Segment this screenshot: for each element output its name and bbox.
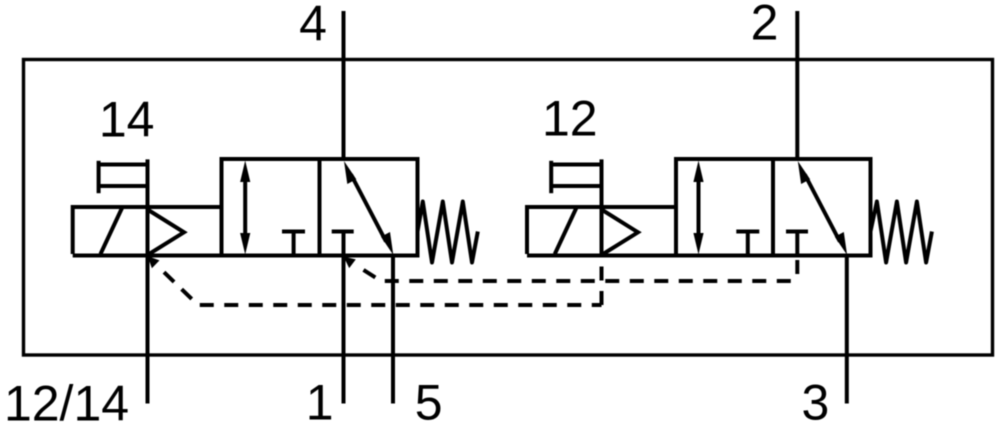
pilot line B arrowhead [344, 257, 356, 269]
valve V1 diagonal flow arrow (right square) [344, 161, 393, 255]
valve V1 body [222, 159, 418, 256]
valve V2 blocked port T (left square) [736, 232, 759, 256]
svg-text:4: 4 [299, 0, 327, 52]
solenoid coil V1 diagonal [101, 208, 123, 254]
solenoid V2 divider (vertical) [600, 159, 604, 255]
pilot triangle V2 [602, 210, 639, 256]
solenoid coil V2 box [527, 207, 676, 254]
valve V2 blocked port T (right square) [786, 232, 808, 256]
svg-text:12: 12 [542, 91, 598, 147]
valve V1 return spring [418, 202, 478, 263]
solenoid V1 divider (vertical) [146, 159, 150, 255]
valve V1 blocked port T (right square) [332, 232, 354, 256]
valve V2 bottom rail (solenoid to body) [527, 254, 676, 258]
port 12/14 line [146, 254, 150, 404]
manual override V1 [99, 161, 148, 193]
solenoid coil V1 box [73, 207, 222, 254]
port 3 line [845, 254, 849, 404]
pilot line B: V2 to port 1 junction (dashed) [364, 270, 798, 281]
valve V2 flow arrow (left square, double-headed) [693, 161, 703, 255]
pilot line A arrowhead [148, 256, 160, 268]
port 1 line [342, 254, 346, 404]
valve V1 flow arrow (left square, double-headed) [240, 161, 250, 255]
valve V1 blocked port T (left square) [282, 232, 305, 256]
svg-text:5: 5 [415, 375, 443, 426]
svg-text:12/14: 12/14 [4, 376, 129, 426]
pilot triangle V1 [148, 210, 185, 256]
enclosure box [24, 60, 993, 356]
svg-text:3: 3 [801, 375, 829, 426]
valve V1 bottom rail (solenoid to body) [73, 254, 222, 258]
pilot line A: 12/14 junction to V2 pilot (dashed) [164, 272, 602, 305]
port 2 line [795, 11, 799, 160]
valve V1 body divider [318, 159, 322, 256]
svg-text:14: 14 [99, 92, 155, 148]
svg-text:2: 2 [751, 0, 779, 51]
svg-text:1: 1 [306, 375, 334, 426]
valve V2 body [676, 159, 871, 256]
port 5 line [391, 254, 395, 404]
solenoid coil V2 diagonal [555, 208, 577, 254]
valve V2 return spring [871, 202, 932, 263]
manual override V2 [551, 161, 601, 193]
valve V2 diagonal flow arrow (right square) [798, 161, 847, 255]
valve V2 body divider [771, 159, 775, 256]
port 4 line [342, 11, 346, 160]
